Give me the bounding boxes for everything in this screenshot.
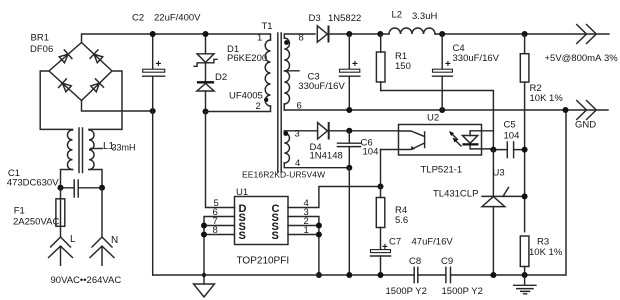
svg-text:TL431CLP: TL431CLP — [433, 189, 478, 200]
diode D2 — [197, 82, 214, 111]
capacitor C4 — [433, 34, 453, 110]
svg-text:U1: U1 — [236, 187, 248, 198]
svg-text:C9: C9 — [441, 256, 453, 267]
svg-text:90VAC••264VAC: 90VAC••264VAC — [51, 275, 122, 286]
svg-text:1N4148: 1N4148 — [310, 151, 343, 162]
svg-text:TLP521-1: TLP521-1 — [421, 165, 463, 176]
junction control node — [378, 184, 384, 190]
svg-text:S: S — [272, 230, 279, 242]
svg-text:104: 104 — [363, 147, 379, 158]
svg-text:S: S — [239, 230, 246, 242]
diode D3 — [317, 26, 328, 43]
capacitor C9 — [446, 267, 451, 282]
junction C5 left — [490, 147, 496, 153]
shunt regulator U3 TL431 — [482, 150, 509, 275]
svg-text:3.3uH: 3.3uH — [412, 11, 437, 22]
svg-text:3: 3 — [295, 129, 300, 140]
ground primary — [194, 275, 215, 297]
svg-text:U3: U3 — [493, 168, 505, 179]
svg-text:+: + — [382, 242, 388, 253]
junction D1 top rail — [203, 31, 209, 37]
junction C1 right — [99, 185, 105, 191]
svg-text:330uF/16V: 330uF/16V — [453, 53, 500, 64]
svg-text:10K 1%: 10K 1% — [529, 247, 563, 258]
wire C2 to primary return rail — [152, 76, 154, 275]
terminal +5V output — [577, 25, 597, 44]
svg-text:33mH: 33mH — [112, 143, 136, 153]
svg-text:473DC630V: 473DC630V — [7, 178, 59, 189]
wire U3 ref to divider — [505, 195, 525, 197]
junction pin1 — [316, 232, 322, 238]
junction pin4 rail — [346, 272, 352, 278]
junction C3 bottom — [346, 107, 352, 113]
svg-text:C5: C5 — [504, 120, 516, 131]
svg-text:10K 1%: 10K 1% — [530, 93, 564, 104]
polarity dot pin3 — [283, 131, 288, 136]
svg-text:C8: C8 — [409, 256, 421, 267]
wire C1 right to N terminal — [101, 188, 103, 237]
wire D3 to L2 — [329, 33, 390, 35]
svg-text:1N5822: 1N5822 — [328, 13, 361, 24]
svg-text:BR1: BR1 — [31, 33, 49, 44]
capacitor C7 — [371, 242, 391, 275]
wire U1 source pins right — [288, 217, 319, 276]
junction C4 bottom — [439, 107, 445, 113]
wire U1 control pin to opto emitter — [288, 187, 381, 208]
wire bridge AC left to choke — [40, 71, 72, 129]
svg-text:+5V@800mA: +5V@800mA — [545, 53, 603, 64]
transformer T1 — [206, 33, 350, 172]
wire U1 source pins left — [204, 217, 235, 276]
junction pin2 — [316, 223, 322, 229]
wire bottom rail middle segment — [418, 274, 446, 276]
wire R1 to opto LED anode — [381, 91, 494, 150]
junction R2 top — [522, 31, 528, 37]
svg-text:+: + — [156, 59, 162, 70]
svg-text:EE16R2KD-UR5V4W: EE16R2KD-UR5V4W — [242, 170, 325, 180]
resistor R3 — [520, 236, 529, 275]
svg-text:L: L — [70, 234, 76, 245]
junction pin8 — [201, 232, 207, 238]
TVS diode D1 — [194, 34, 217, 81]
capacitor C5 — [493, 142, 524, 158]
svg-text:TOP210PFI: TOP210PFI — [237, 256, 290, 267]
polarity dot pin8 — [284, 40, 289, 45]
junction ground rail right — [563, 107, 569, 113]
IC U1 TOP210PFI — [235, 197, 289, 245]
earth ground — [514, 275, 536, 294]
svg-text:D2: D2 — [215, 72, 227, 83]
svg-text:104: 104 — [504, 131, 520, 142]
terminal N — [90, 237, 114, 265]
junction C7 rail — [378, 272, 384, 278]
junction C4 top — [439, 31, 445, 37]
junction pin7 — [201, 223, 207, 229]
svg-text:+: + — [445, 59, 451, 70]
capacitor C6 — [338, 131, 361, 168]
junction C5 right — [522, 147, 528, 153]
capacitor C3 — [340, 34, 360, 110]
diode D4 — [318, 122, 329, 140]
polarity dot pin2 — [264, 98, 268, 102]
wire choke to C1 left — [61, 170, 73, 188]
svg-text:1500P Y2: 1500P Y2 — [442, 286, 483, 297]
wire secondary ground rail — [284, 104, 608, 110]
svg-text:150: 150 — [395, 61, 411, 72]
capacitor C1 — [61, 180, 103, 197]
fuse F1 — [56, 188, 65, 237]
svg-text:+: + — [352, 59, 358, 70]
svg-text:C7: C7 — [389, 237, 401, 248]
wire bridge AC right to choke — [89, 71, 122, 129]
svg-text:UF4005: UF4005 — [229, 91, 263, 102]
resistor R2 — [520, 34, 529, 232]
inductor L1 common-mode choke — [67, 128, 102, 173]
svg-text:F1: F1 — [14, 206, 25, 217]
svg-text:N: N — [111, 235, 118, 246]
junction T1 pin4 node — [346, 165, 352, 171]
terminal L — [49, 237, 73, 265]
svg-text:L2: L2 — [392, 10, 403, 21]
junction TL431 anode rail — [490, 272, 496, 278]
junction ref node — [522, 193, 528, 199]
junction C6 top — [346, 128, 352, 134]
wire pin4 node to bottom rail — [348, 168, 350, 275]
wire choke to C1 right — [89, 170, 102, 188]
wire L2 to +5V terminal — [435, 33, 609, 35]
inductor L2 — [389, 28, 435, 34]
svg-text:GND: GND — [575, 120, 596, 131]
wire opto emitter down — [380, 150, 382, 187]
wire D4 to opto collector — [329, 130, 399, 132]
svg-text:47uF/16V: 47uF/16V — [412, 237, 454, 248]
svg-text:2: 2 — [256, 101, 261, 112]
junction drain node — [203, 109, 209, 115]
svg-text:8: 8 — [299, 33, 304, 44]
junction C2 top — [150, 31, 156, 37]
junction R1 top — [377, 31, 383, 37]
optocoupler U2 — [381, 125, 494, 156]
junction R3 rail — [522, 272, 528, 278]
resistor R1 — [376, 34, 385, 91]
svg-text:C2: C2 — [132, 13, 144, 24]
junction C3 top — [346, 31, 352, 37]
svg-text:5.6: 5.6 — [395, 215, 408, 226]
junction ground rail — [202, 273, 206, 277]
svg-text:4: 4 — [295, 158, 300, 169]
svg-text:D3: D3 — [309, 13, 321, 24]
junction C1 left — [58, 185, 64, 191]
terminal GND — [577, 101, 597, 120]
svg-text:1500P Y2: 1500P Y2 — [386, 286, 427, 297]
junction bridge return — [150, 108, 156, 114]
svg-text:DF06: DF06 — [30, 44, 53, 55]
wire bridge negative output — [82, 101, 153, 112]
wire bottom rail left segment — [153, 274, 415, 276]
svg-text:T1: T1 — [262, 21, 273, 32]
svg-text:22uF/400V: 22uF/400V — [154, 13, 201, 24]
wire top rail primary — [82, 34, 271, 43]
svg-text:1: 1 — [257, 33, 262, 44]
junction source to rail — [316, 272, 322, 278]
capacitor C2 — [143, 34, 165, 76]
wire drain node to U1 pin5 — [206, 112, 235, 208]
wire bottom rail right segment — [451, 110, 567, 275]
svg-text:P6KE200: P6KE200 — [227, 53, 267, 64]
svg-text:2A250VAC: 2A250VAC — [13, 217, 59, 228]
svg-text:330uF/16V: 330uF/16V — [298, 81, 345, 92]
svg-text:3%: 3% — [604, 53, 618, 64]
bridge rectifier BR1 — [49, 43, 112, 101]
capacitor C8 — [414, 267, 418, 282]
svg-text:R3: R3 — [537, 237, 549, 248]
resistor R4 — [376, 187, 385, 250]
svg-text:U2: U2 — [427, 113, 439, 124]
